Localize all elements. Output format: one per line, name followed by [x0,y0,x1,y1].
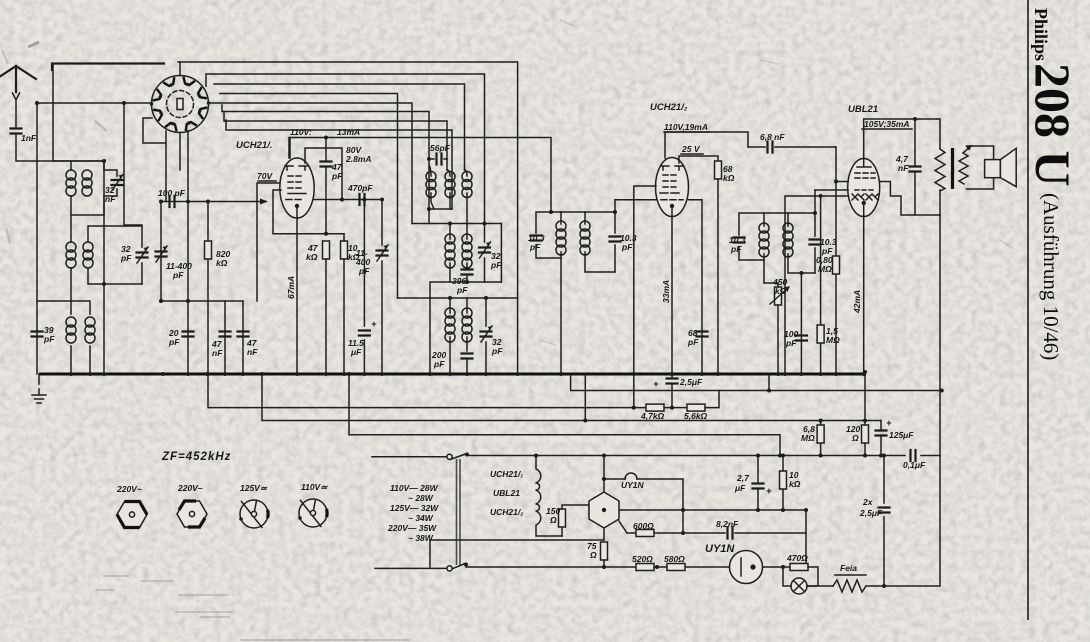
svg-text:70V: 70V [257,171,273,181]
svg-text:pF: pF [687,337,699,347]
svg-text:470Ω: 470Ω [786,553,808,563]
svg-text:100 pF: 100 pF [158,188,186,198]
svg-text:pF: pF [621,242,633,252]
svg-text:μF: μF [734,483,746,493]
svg-text:pF: pF [529,242,541,252]
svg-text:208 U: 208 U [1025,63,1081,187]
svg-text:+: + [371,319,377,330]
svg-text:pF: pF [331,171,343,181]
svg-text:nF: nF [105,194,116,204]
svg-text:2,7: 2,7 [736,473,750,483]
svg-text:~ 38W: ~ 38W [408,533,434,543]
svg-text:125V— 32W: 125V— 32W [390,503,439,513]
svg-text:580Ω: 580Ω [664,554,685,564]
svg-text:110V— 28W: 110V— 28W [390,483,439,493]
svg-text:110V,19mA: 110V,19mA [664,122,708,132]
svg-text:nF: nF [212,348,223,358]
svg-text:125μF: 125μF [889,430,914,440]
svg-text:105V;35mA: 105V;35mA [864,119,910,129]
svg-text:470pF: 470pF [347,183,373,193]
svg-text:Feia: Feia [840,563,857,573]
svg-text:kΩ: kΩ [723,173,735,183]
svg-text:42mA: 42mA [852,290,862,314]
svg-text:220V–: 220V– [177,483,203,493]
svg-text:520Ω: 520Ω [632,554,653,564]
svg-text:(Ausführung 10/46): (Ausführung 10/46) [1039,193,1063,360]
svg-text:UY1N: UY1N [705,543,735,555]
svg-text:pF: pF [490,260,502,270]
svg-text:pF: pF [491,346,503,356]
svg-text:600Ω: 600Ω [633,521,654,531]
svg-text:~ 34W: ~ 34W [408,513,434,523]
svg-text:2x: 2x [862,497,874,507]
svg-text:4,7kΩ: 4,7kΩ [640,411,665,421]
svg-text:13mA: 13mA [337,127,360,137]
svg-text:5,6kΩ: 5,6kΩ [684,411,708,421]
svg-text:Ω: Ω [851,433,859,443]
svg-text:pF: pF [43,334,55,344]
svg-text:25 V: 25 V [681,144,701,154]
svg-text:~ 28W: ~ 28W [408,493,434,503]
svg-text:125V≃: 125V≃ [240,483,268,493]
svg-text:0,1μF: 0,1μF [903,460,926,470]
svg-text:220V~: 220V~ [116,484,142,494]
svg-text:8,2nF: 8,2nF [716,519,739,529]
svg-text:kΩ: kΩ [306,252,318,262]
svg-text:UCH21/₁: UCH21/₁ [490,469,523,479]
svg-text:2,5μF: 2,5μF [679,377,703,387]
svg-text:MΩ: MΩ [801,433,815,443]
svg-text:nF: nF [898,163,909,173]
svg-text:UY1N: UY1N [621,480,645,490]
svg-text:33mA: 33mA [661,280,671,303]
svg-text:Philips: Philips [1031,8,1051,61]
svg-text:pF: pF [433,359,445,369]
svg-text:kΩ: kΩ [789,479,801,489]
svg-text:6,8 nF: 6,8 nF [760,132,785,142]
svg-text:UCH21/.: UCH21/. [236,140,272,151]
svg-text:UCH21/₂: UCH21/₂ [490,507,524,517]
svg-text:pF: pF [120,253,132,263]
svg-text:MΩ: MΩ [818,264,832,274]
svg-text:+: + [653,379,659,390]
svg-text:220V— 35W: 220V— 35W [387,523,437,533]
svg-text:ZF=452kHz: ZF=452kHz [161,451,231,463]
svg-text:pF: pF [730,244,742,254]
svg-text:UCH21/₂: UCH21/₂ [650,102,688,113]
svg-text:UBL21: UBL21 [493,488,520,498]
svg-text:1nF: 1nF [21,133,37,143]
svg-text:pF: pF [456,285,468,295]
svg-text:56pF: 56pF [430,143,451,153]
svg-text:Ω: Ω [549,515,557,525]
svg-text:MΩ: MΩ [826,335,840,345]
svg-text:110V:: 110V: [290,127,312,137]
svg-text:pF: pF [172,270,184,280]
svg-text:pF: pF [168,337,180,347]
svg-text:UBL21: UBL21 [848,104,878,115]
svg-text:Ω: Ω [589,550,597,560]
svg-text:nF: nF [247,347,258,357]
svg-text:2.8mA: 2.8mA [345,154,372,164]
svg-text:+: + [886,418,892,429]
svg-text:2,5μF: 2,5μF [859,508,883,518]
svg-text:67mA: 67mA [286,276,296,299]
svg-text:pF: pF [785,338,797,348]
svg-text:kΩ: kΩ [216,258,228,268]
svg-text:110V≃: 110V≃ [301,482,328,492]
svg-text:+: + [766,486,772,497]
svg-text:μF: μF [350,347,362,357]
